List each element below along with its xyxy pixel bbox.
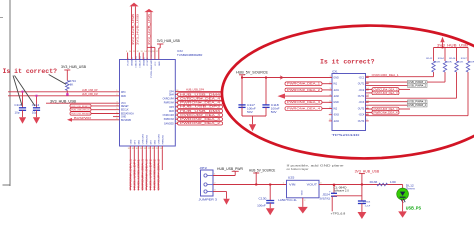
svg-text:VCC: VCC	[155, 61, 157, 66]
off-page connector HUB_USB_DM4	[175, 93, 222, 97]
svg-text:24: 24	[160, 148, 162, 150]
svg-text:3V3_HUB_USB: 3V3_HUB_USB	[355, 169, 380, 173]
svg-text:XTAL1: XTAL1	[135, 61, 138, 68]
svg-text:XTAL2: XTAL2	[138, 55, 141, 62]
svg-text:30: 30	[136, 148, 138, 150]
svg-text:OUT4: OUT4	[358, 120, 365, 123]
svg-text:10K: 10K	[469, 62, 474, 64]
capacitor C117 100nF 50V	[238, 103, 256, 114]
test point TP3	[331, 196, 346, 215]
svg-text:OUT3: OUT3	[358, 107, 365, 110]
svg-text:PWRON#_DEA_2: PWRON#_DEA_2	[287, 89, 321, 92]
annotation ellipse (red circle mark)	[221, 24, 474, 160]
svg-text:fullwave 2.0: fullwave 2.0	[334, 188, 349, 192]
svg-text:OUT2: OUT2	[358, 95, 365, 98]
wire HUB_5V vertical	[241, 75, 243, 116]
wire -OC4 to R147	[366, 72, 469, 116]
svg-text:VIN: VIN	[289, 182, 296, 186]
wire joining pins 14-15	[147, 47, 155, 52]
off-page connector PWRON#_DEA_2	[175, 122, 222, 126]
junction C114	[36, 95, 38, 97]
wire GND_1 stub	[113, 116, 120, 118]
off-page connector PWRON#_DEA_2	[285, 88, 332, 92]
svg-text:HUB_USB_EEDATA: HUB_USB_EEDATA	[71, 112, 90, 115]
ICX2 top pin names	[128, 61, 161, 78]
svg-text:27: 27	[148, 148, 150, 150]
resistor R146 10K	[449, 48, 464, 73]
wire HUB_5V_SOURCE rail to ICX1	[242, 76, 332, 79]
svg-text:3V3_HUB_USB: 3V3_HUB_USB	[157, 39, 180, 43]
sheet border line	[0, 0, 10, 186]
wire JP3 pin3 to ground	[213, 192, 227, 199]
svg-text:HUB_USB_DP3: HUB_USB_DP3	[180, 106, 221, 109]
svg-text:TUSB2046BIRHBR: TUSB2046BIRHBR	[177, 53, 202, 57]
svg-text:JUMPER 3: JUMPER 3	[199, 198, 218, 202]
wire cap ground rail	[242, 107, 266, 116]
net label 3V3_HUB_USB at top pin 17	[157, 39, 180, 53]
off-page connector PWRON#_DEA_3	[175, 118, 222, 122]
ICX1 right pin names	[358, 76, 365, 122]
svg-text:OUT1: OUT1	[358, 83, 365, 86]
svg-text:USB_PWR#_4: USB_PWR#_4	[408, 104, 427, 107]
svg-text:PWRON#_DEA_1: PWRON#_DEA_1	[287, 83, 321, 86]
svg-text:PWRON1: PWRON1	[146, 134, 148, 144]
ICX2 bottom pin stubs	[130, 146, 162, 149]
svg-text:10: 10	[129, 51, 131, 53]
svg-text:PWRON2: PWRON2	[162, 134, 164, 144]
svg-text:8K: 8K	[70, 83, 74, 86]
svg-text:VCC: VCC	[121, 103, 126, 105]
svg-text:11: 11	[133, 51, 135, 53]
resistor R142 10K	[426, 48, 441, 73]
ICX1 left pin names	[333, 76, 339, 122]
LED DL12	[397, 185, 409, 204]
wire -OC3 to R146	[366, 72, 457, 98]
capacitor C116	[14, 103, 26, 115]
power tap 3V3_HUB_USB for R704	[61, 65, 87, 81]
ground arrow under C130	[266, 208, 275, 215]
svg-text:10K: 10K	[435, 62, 441, 64]
ICX2 top pin numbers	[126, 51, 158, 53]
svg-text:31: 31	[132, 148, 134, 150]
wire HUB_USB_DP4	[175, 91, 222, 93]
ICX2 bottom pin numbers	[128, 148, 162, 150]
svg-text:R147: R147	[461, 58, 468, 60]
wire regulator GND to ground	[302, 198, 304, 207]
svg-text:DM4: DM4	[169, 94, 175, 96]
svg-text:10K: 10K	[446, 62, 452, 64]
svg-text:DP0: DP0	[121, 92, 126, 94]
svg-text:HUB_5V_SOURCE: HUB_5V_SOURCE	[249, 168, 275, 172]
svg-text:U25: U25	[288, 176, 295, 180]
off-page connector HUB_USB_EEDATA	[70, 112, 120, 116]
off-page connector PWRON#_DEA_4	[175, 101, 222, 105]
svg-text:3V3_HUB_USB: 3V3_HUB_USB	[50, 100, 77, 104]
svg-text:-EN3: -EN3	[333, 114, 339, 117]
svg-text:GANGED: GANGED	[164, 122, 174, 125]
svg-text:BUSPWR: BUSPWR	[121, 120, 131, 122]
net HUB_USB_PWR	[213, 167, 244, 175]
svg-text:14: 14	[144, 51, 146, 53]
ICX1 pin numbers	[329, 76, 369, 121]
off-page connector HUB_USB_RESET#	[70, 104, 120, 108]
svg-text:PWRON4: PWRON4	[164, 103, 175, 105]
connector JP3 body	[199, 166, 218, 201]
svg-text:GND: GND	[143, 61, 145, 66]
svg-text:10p: 10p	[15, 111, 21, 114]
svg-text:Green: Green	[406, 187, 416, 190]
ground arrow under U25	[298, 207, 308, 214]
off-page connector HUB_USB_DP3	[175, 105, 222, 109]
wire C118 branch	[265, 77, 267, 105]
svg-text:OVRCUR#_DEA_3: OVRCUR#_DEA_3	[374, 92, 399, 95]
wire vertical to top pin 11	[134, 6, 136, 52]
svg-text:EECLK: EECLK	[121, 110, 129, 112]
power arrow 3V3_HUB_USB (right)	[144, 9, 153, 12]
svg-text:Is it correct?: Is it correct?	[320, 59, 375, 66]
svg-text:HUB_5V_SOURCE: HUB_5V_SOURCE	[236, 70, 269, 74]
svg-text:C130: C130	[259, 197, 268, 201]
off-page connector PWRON#_DEA_4	[366, 111, 400, 115]
junction R704	[66, 93, 68, 95]
svg-text:R142: R142	[426, 58, 433, 60]
wire LED to ground	[402, 200, 404, 212]
capacitor C118 100nF 50V	[262, 103, 280, 114]
annotation callout line to C116	[13, 76, 22, 106]
svg-text:DP4: DP4	[169, 92, 174, 94]
svg-text:OVRCUR#_DEA_2: OVRCUR#_DEA_2	[157, 159, 161, 190]
ground arrow under LED	[398, 211, 407, 217]
net BUSPWR with arrow	[67, 116, 120, 122]
svg-text:15: 15	[148, 51, 150, 53]
off-page connector HUB_USB_DM3	[175, 109, 222, 113]
wire vertical to top pin 15	[150, 12, 152, 47]
regulator U25 body	[283, 176, 323, 202]
svg-text:-EN1: -EN1	[333, 89, 339, 92]
wire -OC1 to R142	[366, 72, 434, 77]
ICX2 left pin names	[121, 92, 134, 122]
svg-text:BUSPWR: BUSPWR	[74, 116, 91, 120]
refdes ICX2	[177, 49, 202, 57]
net OUT4 USB_PWR#_4	[366, 103, 428, 107]
ICX2 downstream port wires	[130, 149, 162, 190]
svg-text:-EN4: -EN4	[333, 120, 339, 123]
wire JD24 link	[334, 195, 362, 197]
svg-text:OVRCUR4: OVRCUR4	[163, 99, 175, 101]
svg-text:PWRON#_DEA_4: PWRON#_DEA_4	[374, 111, 399, 114]
svg-text:VCC: VCC	[128, 61, 130, 66]
ICX2 right pin names	[163, 92, 175, 126]
svg-text:100nF: 100nF	[257, 205, 266, 208]
capacitor 2.2uF X7R	[358, 185, 371, 213]
svg-text:50V: 50V	[271, 111, 277, 114]
off-page connector OVRCUR#_DEA_2	[366, 88, 411, 92]
svg-text:Is it correct?: Is it correct?	[3, 68, 58, 75]
net label HUB_5V_SOURCE (upper)	[236, 70, 269, 74]
svg-text:3V3(TAJ): 3V3(TAJ)	[320, 198, 331, 201]
svg-text:GND: GND	[130, 139, 132, 144]
label DL12 Green	[406, 184, 416, 190]
svg-text:16: 16	[152, 51, 154, 53]
wire VCC 3V3_HUB_USB	[46, 102, 120, 104]
svg-text:HUB_USB_RESET#: HUB_USB_RESET#	[71, 106, 90, 108]
svg-text:GND: GND	[132, 61, 134, 66]
svg-text:EEDATA/GA: EEDATA/GA	[121, 113, 134, 116]
annotation callout line to R704	[49, 75, 66, 85]
svg-text:TPS2044D: TPS2044D	[332, 133, 360, 137]
resistor R136 130	[370, 181, 397, 186]
svg-text:PWRON#_DEA_2: PWRON#_DEA_2	[180, 122, 221, 125]
svg-text:3V3_HUB_USB: 3V3_HUB_USB	[135, 14, 139, 45]
bottom net labels vertical	[129, 159, 161, 190]
svg-text:R144: R144	[438, 58, 445, 60]
svg-text:PWRON#_DEA_4: PWRON#_DEA_4	[287, 107, 321, 110]
svg-text:DM0: DM0	[121, 96, 127, 98]
off-page connector OVRCUR#_DEA_3	[366, 91, 400, 95]
wire R704 to DM	[66, 91, 68, 96]
wire VOUT rail	[319, 184, 403, 186]
svg-text:X7R50K: X7R50K	[363, 201, 371, 203]
svg-text:29: 29	[140, 148, 142, 150]
wire pullup rail	[434, 47, 469, 49]
off-page connector PWRON#_DEA_1	[285, 82, 332, 86]
svg-text:PWRON#_DEA_4: PWRON#_DEA_4	[180, 102, 221, 105]
svg-text:-OC3: -OC3	[358, 101, 364, 104]
ground arrow under 2.2uF	[358, 212, 367, 219]
svg-text:25: 25	[156, 148, 158, 150]
junction HUB_5V rail	[241, 77, 243, 79]
ICX2 top pin stubs	[128, 53, 159, 60]
svg-text:PWRON#_DEA_3: PWRON#_DEA_3	[287, 101, 321, 104]
svg-text:PWRON3: PWRON3	[164, 119, 175, 121]
svg-text:R146: R146	[449, 58, 456, 60]
power arrow 3V3_HUB_USB (left)	[129, 3, 138, 7]
svg-text:JD24: JD24	[322, 193, 330, 196]
wire HUB_USB_DM	[8, 95, 120, 97]
svg-text:-EN2: -EN2	[333, 95, 339, 98]
svg-text:XTAL2: XTAL2	[138, 61, 141, 68]
svg-text:130: 130	[390, 181, 397, 184]
svg-text:VOUT: VOUT	[307, 182, 318, 186]
svg-text:DM3: DM3	[169, 111, 175, 113]
svg-text:LA5077CC-3L: LA5077CC-3L	[278, 198, 297, 202]
svg-text:10K: 10K	[458, 62, 464, 64]
off-page connector OVRCUR#_DEA_4	[175, 97, 222, 101]
net OUT1 USB_PWR#_1	[366, 72, 446, 84]
svg-text:ICX1: ICX1	[332, 71, 338, 74]
svg-text:GND: GND	[333, 76, 339, 79]
svg-text:GND: GND	[302, 190, 304, 195]
svg-text:32: 32	[128, 148, 130, 150]
junction C116	[22, 91, 24, 93]
ICX2 right pin numbers	[176, 90, 179, 124]
svg-text:2.2uF: 2.2uF	[365, 205, 371, 207]
wire HUB_USB_DP	[8, 91, 120, 93]
net OUT3 USB_PWR#_3	[366, 100, 428, 104]
capacitor C130 100nF	[257, 184, 274, 209]
svg-text:R704: R704	[69, 80, 76, 83]
net OUT2 USB_PWR#_2	[366, 84, 428, 88]
svg-text:PWRON#_DEA_3: PWRON#_DEA_3	[180, 118, 221, 121]
svg-text:RESET: RESET	[121, 106, 129, 108]
wire C116 to ground arrow	[22, 110, 24, 117]
svg-text:GND: GND	[333, 101, 339, 104]
net label 3V3_HUB_USB (bottom)	[355, 169, 380, 185]
svg-text:9: 9	[126, 51, 127, 53]
off-page connector PWRON#_DEA_4	[285, 107, 332, 111]
svg-text:HUB_USB_DP4: HUB_USB_DP4	[186, 88, 204, 92]
svg-text:GND: GND	[159, 61, 161, 66]
resistor R144 10K	[438, 48, 453, 73]
svg-text:USB_PS: USB_PS	[406, 206, 422, 212]
svg-text:DP3: DP3	[169, 107, 174, 109]
wire C114 to ground arrow	[36, 110, 38, 117]
svg-text:13: 13	[140, 51, 142, 53]
svg-text:50V: 50V	[247, 111, 253, 114]
wire C116 to DP	[22, 92, 24, 108]
svg-text:VCC: VCC	[147, 61, 149, 66]
svg-text:OVRCUR2: OVRCUR2	[158, 133, 160, 144]
IC ICX2 TUSB2046BIRHBR USB hub controller body	[120, 60, 176, 147]
ICX2 bottom pin names	[130, 133, 164, 144]
svg-text:OVRCUR3: OVRCUR3	[163, 115, 175, 117]
svg-text:on bottom layer: on bottom layer	[287, 167, 309, 171]
svg-text:-OC4: -OC4	[358, 114, 364, 117]
svg-text:12: 12	[137, 51, 139, 53]
power switch ICX1 TPS2044 body	[332, 74, 366, 131]
JP3 pins	[204, 174, 216, 193]
gray note text	[287, 163, 345, 170]
capacitor JD24 tantalum	[320, 184, 338, 201]
svg-text:JP3: JP3	[199, 166, 207, 170]
svg-text:HUB_USB_EECLK: HUB_USB_EECLK	[71, 110, 90, 112]
svg-text:17: 17	[156, 51, 158, 53]
net label HUB_5V_SOURCE (lower)	[249, 168, 275, 185]
svg-text:+TP3_6.8: +TP3_6.8	[331, 211, 346, 215]
wire vertical to top pin 14	[146, 12, 148, 47]
svg-text:-OC1: -OC1	[358, 76, 364, 79]
off-page connector OVRCUR#_DEA_4	[366, 107, 411, 111]
resistor R147 10K	[461, 48, 474, 73]
svg-text:HUB_USB_PWR: HUB_USB_PWR	[217, 167, 244, 171]
ground arrow under JP3	[223, 199, 230, 205]
svg-text:OVRCUR#_DEA_4: OVRCUR#_DEA_4	[180, 97, 221, 100]
svg-text:3V3_HUB_USB: 3V3_HUB_USB	[147, 14, 151, 45]
svg-text:OVRCUR#_DEA_3: OVRCUR#_DEA_3	[180, 114, 221, 117]
wire JP3 pin2 rail to regulator	[213, 184, 287, 186]
wire C114 to DM	[36, 96, 38, 108]
off-page connector HUB_USB_EECLK	[70, 108, 120, 112]
svg-text:26: 26	[152, 148, 154, 150]
svg-text:GND: GND	[121, 117, 126, 119]
net arrow into -EN2	[278, 94, 333, 99]
svg-text:USB_PWR#_2: USB_PWR#_2	[408, 84, 427, 87]
svg-text:HUB_USB_DM: HUB_USB_DM	[82, 92, 98, 96]
note CL-084D	[334, 186, 350, 193]
svg-text:IN1: IN1	[333, 83, 337, 86]
svg-text:OVRCUR1: OVRCUR1	[142, 133, 144, 144]
resistor R704	[66, 80, 77, 91]
svg-text:3V3_HUB_USB: 3V3_HUB_USB	[61, 65, 87, 69]
svg-text:TSTPLL/48MCLK: TSTPLL/48MCLK	[151, 61, 153, 78]
capacitor C114	[32, 103, 40, 115]
off-page connector OVRCUR#_DEA_3	[175, 113, 222, 117]
svg-text:-OC2: -OC2	[358, 89, 364, 92]
svg-text:HUB_USB_DM3: HUB_USB_DM3	[180, 110, 221, 113]
svg-text:R136: R136	[370, 181, 378, 184]
annotation callout line to C114	[15, 76, 36, 107]
ground arrow under C117 C118	[249, 116, 256, 131]
ICX1 pin stubs	[329, 78, 369, 121]
svg-text:28: 28	[144, 148, 146, 150]
wire vertical to top pin 10	[131, 6, 133, 52]
junction pullup rail	[442, 47, 444, 49]
svg-text:HUB_USB_DM4: HUB_USB_DM4	[180, 93, 221, 96]
power arrow 3V3_HUB_USB above pullups	[437, 37, 468, 48]
svg-text:IN2: IN2	[333, 107, 337, 110]
svg-text:OVRCUR#_DEA_1: OVRCUR#_DEA_1	[372, 74, 400, 77]
ICX2 left pin numbers	[116, 90, 118, 120]
off-page connector PWRON#_DEA_3	[285, 101, 332, 105]
